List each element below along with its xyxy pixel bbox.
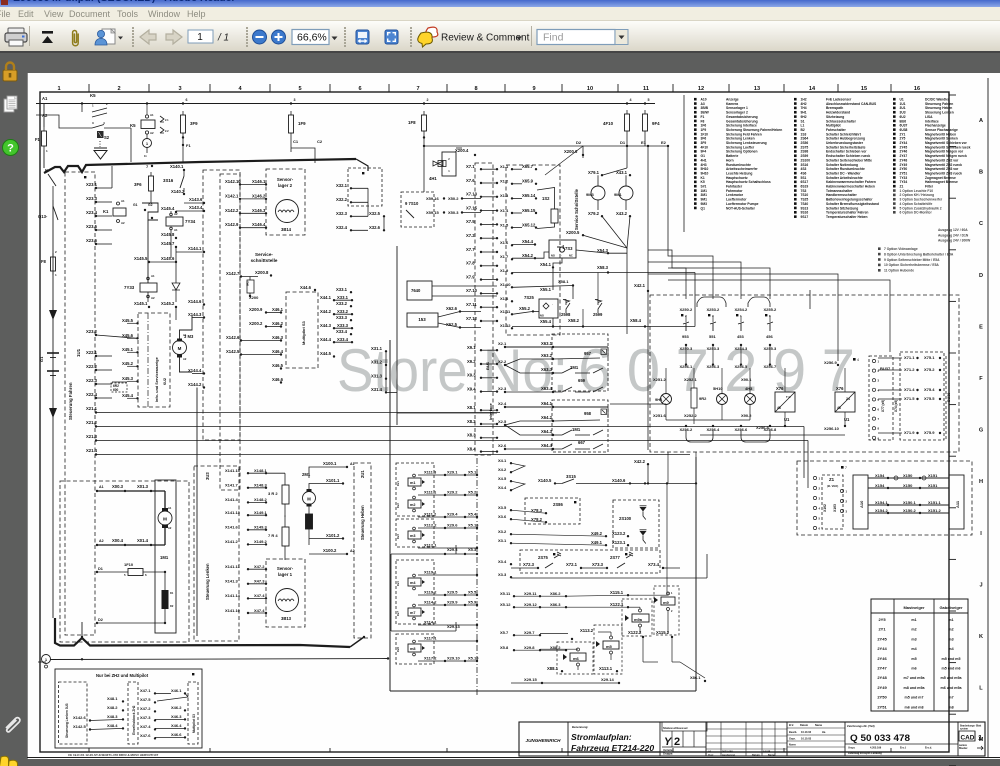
valve m6 — [563, 654, 567, 660]
svg-text:66,6%: 66,6% — [297, 32, 327, 44]
dotted separator 3 — [344, 27, 346, 47]
wire 3F6 down — [150, 195, 152, 203]
valve array dashed enclosure m8 — [396, 634, 434, 664]
motor sensor box 958/1M1/667 — [552, 400, 608, 452]
valve m9 — [654, 597, 658, 603]
ground arrow below S2 — [94, 148, 107, 159]
title block outer box — [519, 722, 985, 756]
multipilot S3 dashed box — [286, 292, 318, 368]
sidebar pages icon — [4, 96, 17, 112]
page-top navigation icon — [42, 31, 53, 43]
long wire lift bus — [51, 659, 389, 660]
speed sensor contact row 667 — [553, 434, 562, 436]
side shift switch 2S100 — [613, 500, 659, 548]
pump motor field — [306, 514, 313, 529]
long wire X21.3 — [110, 440, 808, 442]
title block drawing name cell — [659, 722, 661, 756]
valve m9a — [625, 615, 629, 621]
diode across 7Y33 — [172, 283, 180, 290]
title block drawing number cell Q 50 033 478 — [844, 722, 846, 756]
bullet marker 7 — [841, 466, 844, 469]
wire main +bus A1 — [36, 103, 655, 105]
mast table Mastneiger/Gabelneiger — [871, 599, 968, 711]
wire elbow feed X250.2 — [648, 250, 686, 299]
back arrow disabled — [140, 30, 156, 44]
wire X144.2 drop to lift bus — [196, 388, 198, 426]
wire top feed into enclosure — [809, 290, 811, 309]
wire elbow feed X256.9 — [648, 274, 838, 361]
wire to 7Y33 — [147, 220, 149, 283]
toolbar separator — [29, 26, 30, 46]
fuse F1 — [42, 131, 47, 146]
box 153 accelerator — [407, 313, 438, 327]
wire X58 right riser — [694, 273, 696, 327]
current page number field — [188, 30, 213, 43]
wire diag to D2 — [545, 146, 583, 175]
dead man switch 7S3 — [549, 240, 576, 258]
sign/identity toolbar icon with page — [95, 29, 123, 45]
fuse 3F6 — [149, 176, 154, 191]
wire 4F10 to rail — [626, 135, 628, 146]
service interface dashed box — [203, 170, 240, 440]
contact G1-G2 block — [142, 203, 158, 220]
switch S2 key contact — [97, 131, 104, 138]
wire X256.8 to X256.10 — [700, 434, 845, 436]
find field — [537, 30, 615, 45]
valve manifold boundary dash-dot — [476, 458, 478, 697]
dotted link S2 to arrow — [99, 141, 101, 147]
dotted separator 2 — [246, 27, 248, 47]
wire risers m-valves — [642, 637, 644, 662]
toolbar separator 5 — [531, 26, 532, 46]
wire X256 bottom rail — [666, 419, 750, 421]
connector column X1/X65 — [506, 165, 560, 335]
valve array dashed enclosure m1 m2 — [396, 463, 434, 516]
wire M3 bottom — [180, 358, 193, 373]
limit switch 2S98 — [563, 300, 570, 314]
print toolbar icon — [5, 28, 27, 46]
wire X145 bus — [149, 261, 176, 263]
wire M3 top — [180, 316, 193, 339]
resistor 6R2 service — [247, 280, 254, 293]
wire E1 drop — [647, 146, 649, 291]
heavy bus left segment — [44, 159, 356, 173]
current arrow down — [49, 310, 57, 320]
legend options list 1-6 — [893, 189, 896, 192]
title block signature cell — [786, 722, 788, 756]
solenoid 7Y33 brake magnet — [147, 277, 150, 280]
fuse 9F4 — [643, 114, 648, 131]
dotted separator 4 — [410, 27, 412, 47]
options dashed enclosure — [650, 295, 959, 452]
speed sensor contact row 659 — [553, 372, 562, 374]
rows X71/X75 flat display — [900, 352, 944, 440]
legend column 1 (A,B,F,G,H,K,M,Q refs) — [694, 98, 697, 101]
wire X21.2 drop to Z1 — [803, 427, 805, 479]
current arrow down 2 — [49, 408, 57, 418]
legend column 2 (H,S refs) — [794, 98, 797, 101]
interface BU6 dashed box — [475, 163, 493, 455]
junction dots on top bus — [81, 102, 83, 104]
wire arc X254.2-X255.2 — [748, 297, 770, 307]
wire key switch to interface drop — [130, 128, 132, 162]
wire F1 below 3F9 — [182, 137, 184, 163]
nodes C1 C2 — [290, 137, 292, 152]
frame tick at lift bus — [38, 661, 46, 663]
dotted separator 1 — [132, 27, 134, 47]
wire X31 to long runs — [386, 391, 397, 393]
zoom in button — [272, 30, 286, 44]
svg-text:Review & Comment: Review & Comment — [441, 33, 530, 44]
node 1 circle below K5 — [146, 134, 148, 139]
wire 1F8 down to 7S10 — [423, 135, 425, 192]
dashed box above X32 — [348, 168, 382, 206]
options lower dashed enclosure — [797, 461, 972, 535]
sidebar help icon — [3, 140, 19, 156]
heavy bus bottom — [55, 618, 350, 647]
wires fan motors to D1 — [626, 146, 628, 168]
valve array dashed enclosure m4 m7 — [396, 560, 434, 624]
sensor bearing 1 box — [266, 559, 305, 627]
motor 1M1 armature — [164, 491, 166, 508]
contactor coil K5 — [141, 120, 155, 129]
long wire X21.2 — [110, 426, 804, 428]
wire elbow feed BU37 — [668, 280, 890, 352]
motor 1M1 housing box — [155, 480, 176, 633]
sidebar lock icon — [3, 63, 17, 82]
valve m6 dashed box — [557, 642, 593, 674]
lift controller box Steuerung Heben 2U1 — [354, 463, 371, 638]
svg-text:?: ? — [7, 143, 14, 155]
zoom percent field 66,6% — [292, 30, 329, 45]
sidebar comments icon — [0, 756, 9, 766]
display box Info- und Serviceanzeige 6U2 — [138, 313, 170, 407]
horn 4H1 — [442, 152, 456, 176]
right ruler tick marks — [949, 94, 956, 96]
valve m5 — [596, 641, 600, 647]
wire X21.3 drop to Z1 — [807, 441, 809, 489]
svg-text:1: 1 — [197, 32, 203, 43]
wire 9F4 to rail — [644, 135, 646, 146]
sensor coil 3B14 — [276, 200, 299, 223]
node 1 circle bottom left — [42, 655, 51, 664]
review and comment icon — [426, 27, 438, 39]
legend separator line — [683, 95, 685, 232]
wire option feed rail — [424, 145, 668, 147]
valve array dashed enclosure m3 — [396, 519, 434, 547]
bottom ruler tick marks — [88, 748, 90, 752]
svg-text:/ 1: / 1 — [217, 33, 229, 44]
valve m9a dashed box — [622, 599, 652, 636]
fuse 1F8 — [422, 115, 427, 131]
long vertical wire mid sheet — [396, 246, 398, 425]
drawing sheet inner border frame — [40, 92, 949, 752]
steering controller box 3U3 — [194, 466, 239, 641]
safety switch enclosure 2S75/2S77 — [520, 550, 660, 573]
drive motor dashed enclosure — [60, 481, 189, 642]
heavy bus kink to interface — [356, 159, 368, 171]
connector BU37 pin block — [869, 356, 893, 440]
wire X145.2 down — [175, 307, 177, 320]
relay box 9 7510 — [401, 192, 434, 227]
zoom out button — [253, 30, 267, 44]
sensor coil 3B13 — [276, 589, 299, 612]
bullet marker 4 — [853, 358, 856, 361]
controller box Steuerung Fahren 1U1 — [65, 172, 95, 635]
sensor bearing 2 box — [266, 169, 305, 235]
einzelhubbock ZH2 box — [128, 682, 138, 744]
multipilot S3 stub box — [188, 682, 198, 744]
limit switch 2S99 — [595, 300, 602, 314]
long wire X21.1 — [110, 412, 500, 414]
fuse F8 — [51, 257, 56, 271]
interlock symbols right of K5 — [160, 116, 164, 122]
wire E2 drop — [667, 146, 669, 250]
fuse 1F9 — [289, 115, 294, 133]
wire X31 drops — [385, 351, 387, 392]
long wire X21.4 — [110, 454, 690, 456]
attachments paperclip toolbar icon — [73, 31, 79, 46]
title block Jungheinrich logo cell — [567, 722, 569, 756]
wire A2 branch to key switch — [36, 115, 92, 128]
wire X32 risers — [367, 188, 369, 216]
steering controller stub box — [59, 682, 88, 744]
wire U-link col3-col4 bottom — [741, 430, 770, 442]
wire elbow feed X255.2 — [668, 268, 770, 299]
title block revision grid — [706, 728, 787, 730]
sidebar attachments paperclip icon — [6, 718, 20, 732]
wire elbow feed X253.2 — [668, 250, 713, 299]
wire arc X250.2-X253.2 — [697, 297, 726, 307]
solenoid 7Y34 brake magnet — [166, 217, 183, 226]
wire elbow feed X254.2 — [648, 262, 741, 299]
fuse 4F10 — [625, 114, 630, 131]
motor sensor box 957/2M1/659 — [552, 334, 608, 391]
legend column 3 (U,Y,Z refs) — [893, 98, 896, 101]
forward arrow disabled — [166, 30, 182, 44]
long wire mid sheet 414 — [397, 412, 497, 414]
wire left rail down — [52, 200, 54, 618]
top ruler tick marks — [88, 84, 90, 92]
fit page icon — [385, 30, 398, 44]
module A11 — [949, 475, 964, 529]
wire U-link col1-col2 bottom — [686, 430, 713, 442]
box 7640 charge indicator — [407, 281, 432, 300]
filter Z1 — [822, 475, 843, 529]
solid boundary lower middle — [389, 340, 391, 691]
fuse 3F9 — [181, 115, 186, 133]
wire valve risers — [390, 554, 392, 631]
wires X47-X46 ZH2 — [155, 692, 171, 694]
valve m5 dashed box — [594, 625, 622, 674]
wire notch to 1U1 box — [81, 636, 83, 638]
sheet right edge line — [987, 78, 989, 757]
wire X23.1 to bus — [111, 166, 113, 188]
wire X3.3 long run — [511, 577, 707, 579]
module A10 — [853, 475, 868, 529]
resistor 9R2 — [691, 388, 697, 408]
switch box 2S86 — [525, 498, 580, 524]
valve m9 dashed box — [654, 586, 679, 635]
resistor 6R2 600 — [111, 383, 127, 392]
legend options list 7-11 — [878, 247, 881, 250]
svg-text:Find: Find — [543, 32, 564, 44]
box Nur bei ZH2 und Multipilot — [55, 669, 202, 748]
sheet bottom edge line — [27, 757, 1000, 759]
title block status key cell Y2 — [705, 722, 707, 756]
fit width icon — [356, 30, 369, 44]
field winding resistor — [162, 590, 169, 609]
title block CAD / sheet cell — [957, 722, 959, 756]
